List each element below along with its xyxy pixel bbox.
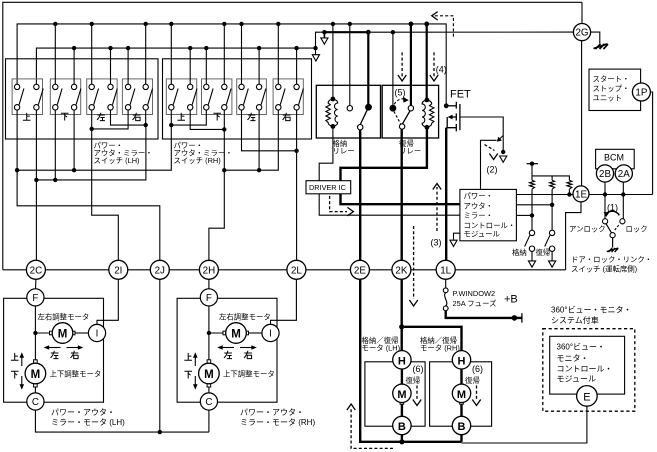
node: +B terminal [512,315,518,321]
svg-text:F: F [206,293,212,304]
svg-text:C: C [32,397,39,408]
switch unit box RIGHT (RH) [273,79,303,115]
svg-text:スイッチ (RH): スイッチ (RH) [174,156,221,165]
label UP (LH) [23,113,31,120]
svg-text:2H: 2H [203,265,216,276]
svg-text:モータ (RH): モータ (RH) [420,344,460,353]
svg-text:B: B [398,421,406,433]
node: dot on bottom rail [399,439,404,444]
terminal I (LH) [88,324,105,341]
node: bus junction dots LH [53,22,148,51]
svg-text:2J: 2J [155,265,165,276]
connector 2K [392,260,411,279]
motor M retract (RH) [452,384,470,404]
svg-text:BCM: BCM [604,153,624,163]
retract motor LH box [365,362,425,426]
svg-text:復帰: 復帰 [536,248,551,257]
svg-text:パワー・アウタ・: パワー・アウタ・ [240,408,304,417]
node: bus24 dot coil [331,22,335,26]
wire: M1 to I [73,332,89,334]
svg-text:ユニット: ユニット [593,94,623,103]
svg-text:ドア・ロック・リンク・: ドア・ロック・リンク・ [571,255,652,264]
node: y32 dot [391,30,395,34]
node: dot col8 y125 [144,123,148,127]
node: FET drain dot [444,103,449,108]
wire: branch to RH retract motor (thick) [402,327,462,351]
wire: dashed arrow (3) up [436,187,438,231]
label LEFT (RH) [248,113,256,121]
connector 1P [632,83,650,101]
terminal H (RH) [452,351,470,369]
terminal I (RH) [262,324,279,341]
connector 2J [150,260,169,279]
svg-text:25A フューズ: 25A フューズ [453,299,498,308]
connector 2E [350,260,369,279]
wire: M1 to I [246,332,262,334]
wire: retract relay coil feed from bus24 [332,24,334,99]
motor M UD adjust (RH) [199,360,220,387]
transistor FET [446,102,460,132]
connector 2C [26,260,45,279]
wire: retract relay blade [360,107,368,124]
wire: 2E thick drop to bottom rail [360,279,461,442]
wire: y32 thick segment to relay common [324,31,368,33]
svg-text:(5): (5) [395,88,406,98]
wire: 1E to 2G vertical [581,32,583,194]
switch contacts LH (8 columns) [14,84,152,110]
wire: 2K thick drop [401,279,403,350]
wire: risers RH cols to buses [171,24,296,84]
svg-text:1E: 1E [575,189,587,200]
connector 2L [287,260,306,279]
wire: RH col6 drop [258,110,260,170]
svg-text:復帰: 復帰 [465,376,480,385]
wire: DRIVER IC out thick to module [341,194,460,204]
wire: RH col4 drop to 2H elbow [209,110,224,260]
svg-text:H: H [398,355,406,367]
terminal H (LH) [393,351,411,369]
wire: return coil to DRIVER IC (thick) [341,127,427,180]
label UP (RH) [177,113,185,120]
wire: dashed arrow (2) [485,145,495,151]
svg-text:I: I [269,329,272,340]
mirror motor LH box [4,298,104,402]
motor M UD adjust (LH) [25,360,46,387]
svg-text:E: E [583,391,590,403]
svg-text:モジュール: モジュール [464,230,501,239]
node: dots line D [222,168,261,172]
mirror switch LH box [6,59,159,139]
relay coil (retract) [326,97,338,129]
wire: module line 2 to pullup mid [516,204,552,206]
svg-text:システム付車: システム付車 [551,315,599,325]
wire: pullup2 down to return switch [551,189,553,230]
terminal C (LH) [27,393,44,410]
svg-text:ミラー・モータ (RH): ミラー・モータ (RH) [240,418,315,427]
wire: 2B drop [604,181,606,219]
svg-text:1P: 1P [635,88,647,99]
wire: row to 1E riser [566,194,581,270]
wire: below blade pivot to dot and triangle [502,136,504,153]
wire: pullup1 down to retract switch [531,189,533,230]
svg-text:(6): (6) [413,364,424,374]
svg-text:コントロール・: コントロール・ [557,365,613,374]
terminal F (RH) [200,289,217,306]
wire: line B (y=179.9) col2-col3-col8 [36,128,145,180]
node: dot LH motor [33,331,37,335]
wire: 1P to BCM line [645,92,653,195]
node: return relay right contact [408,106,413,111]
resistor pullup 3 [567,180,572,189]
svg-text:ストップ・: ストップ・ [593,84,630,93]
svg-text:リレー: リレー [333,147,355,156]
wire: LH col2 drop to 2C [35,110,37,260]
wire: connector row line [3,269,566,271]
svg-text:360°ビュー・モニタ・: 360°ビュー・モニタ・ [551,306,632,315]
svg-text:(1): (1) [607,203,618,213]
svg-text:2E: 2E [354,265,366,276]
switch unit box UP (LH) [12,79,42,115]
node: dot col5 y129 [90,127,94,131]
wire: ground loop (top edge, left edge) [3,2,582,270]
wire: line D (y=170.2) RH col4-col6-col7 [224,110,278,170]
wire: LH col4 drop [73,110,75,170]
mirror motor RH box [177,298,277,402]
wire: C LH down and right [35,410,209,432]
360 view control module box [550,336,625,394]
svg-text:M: M [58,329,68,341]
wire: 1E to BCM/1P line [589,194,653,196]
connector 1L [436,260,455,279]
svg-text:アンロック: アンロック [569,225,606,234]
svg-text:I: I [96,329,99,340]
svg-text:ミラー・モータ (LH): ミラー・モータ (LH) [51,418,125,427]
svg-text:360°ビュー・: 360°ビュー・ [557,343,606,352]
switch unit box DOWN (LH) [50,79,80,115]
svg-text:2C: 2C [30,265,43,276]
svg-text:復帰: 復帰 [406,376,421,385]
node: bus junction dots RH [169,22,299,51]
switch unit box UP (RH) [166,79,196,115]
switch unit box RIGHT (LH) [122,79,152,115]
wire: FET source to 1L (thick) [445,128,447,261]
label: UD arrows (RH) [194,355,196,387]
node: return relay left contact (filled) [390,105,397,112]
node: dot RH motor [207,331,211,335]
DRIVER IC box [306,181,351,194]
label LEFT (LH) [97,113,105,121]
node: dot module line2 [550,203,554,207]
wire: I elbow up to 2L [271,279,297,325]
wire: dot to M1 [209,332,226,334]
node: retract relay common contact (filled) [365,104,372,111]
svg-text:+B: +B [504,294,518,306]
svg-text:H: H [458,355,466,367]
motor M retract (LH) [393,384,411,404]
relay coil (return) [422,98,434,130]
wire: 2A drop [622,181,624,219]
wire: line A (y=170.2) to RH col1 [17,125,171,170]
wire: 2G stub to top edge [581,2,583,32]
mirror control module box [460,189,517,240]
node: dot RH col1 y125 [169,123,173,127]
wire: return relay action arc (5) [394,99,406,104]
wire: dashed arrow down (return action) [413,226,415,299]
svg-text:左右調整モータ: 左右調整モータ [38,313,90,322]
node: return relay moving contact [399,124,404,129]
resistor pullup 1 [530,180,535,189]
switch unit box LEFT (LH) [87,79,117,115]
terminal E [577,386,598,407]
label: UD arrows (LH) [21,355,23,387]
wire: LH col8 drop (through y125 dot) [145,110,147,128]
node: dot module line3 [530,213,534,217]
wire: I elbow up to 2I [97,279,118,325]
wire: retract relay common feed (thick from y32) [367,32,369,105]
wire: RH col8 drop to 2L [296,110,298,260]
wire: C RH down [208,410,210,432]
wire: dashed arrow from DRIVER IC [330,196,347,212]
svg-text:モータ (LH): モータ (LH) [362,344,401,353]
terminal C (RH) [200,393,217,410]
svg-text:スイッチ (LH): スイッチ (LH) [94,156,140,165]
svg-text:左右調整モータ: 左右調整モータ [219,313,271,322]
svg-text:M: M [31,369,41,381]
switch: return position switch [545,230,555,261]
connector 2G [573,23,590,40]
switch contacts RH (8 columns) [169,84,304,110]
svg-text:2I: 2I [114,265,122,276]
svg-text:2G: 2G [575,28,588,39]
switch: retract position switch [525,230,535,261]
svg-text:C: C [205,397,212,408]
wire: contact line to module [481,140,497,189]
svg-text:2A: 2A [618,169,630,180]
node: y32 dot [366,30,371,35]
wire: return relay moving to 2K (thick) [401,129,403,260]
svg-text:パワー・: パワー・ [464,192,494,201]
BCM box [596,149,635,169]
svg-text:2B: 2B [599,169,611,180]
node: bus24 dot [409,22,414,27]
motor M LR adjust (RH) [223,323,249,344]
wire: return relay NO contact feed from y32 [392,32,394,105]
node: dots 2B/2A on line [603,192,626,196]
switch: gate contact blade with arrow [500,136,504,140]
svg-text:2K: 2K [395,265,407,276]
node: dot RH col4 y129 [222,127,226,131]
wire: 2J drop [159,279,161,432]
node: dot [501,150,505,154]
wire: retract coil to DRIVER IC [319,126,333,180]
motor M LR adjust (LH) [50,323,76,344]
wire: dashed arrow top right (retract signal) [435,16,454,37]
start stop unit box [589,69,641,110]
wire: LH col3 drop [54,110,56,180]
svg-text:DRIVER IC: DRIVER IC [309,183,346,192]
wire: F down through dot to M2 and C [34,306,36,394]
wire: return relay right contact feed (thick from bus24) [410,24,412,106]
svg-text:(3): (3) [431,237,442,247]
svg-text:ロック: ロック [626,225,648,234]
svg-text:B: B [458,421,466,433]
terminal B (LH) [393,416,411,434]
svg-text:ミラー・: ミラー・ [464,211,494,220]
ground: 2G chassis ground [591,32,600,43]
label: LR arrows (LH) [46,347,81,349]
connector 1E [573,186,589,202]
wire: switch action arc (1) [607,211,620,215]
wire: LH col5 drop then elbow to 2I [92,110,119,260]
wire: module to 1E line [516,194,573,196]
svg-text:格納: 格納 [512,248,527,257]
node: dots on line A [15,168,76,172]
svg-text:モジュール: モジュール [557,375,596,384]
wire: module line 3 to pullup left [516,214,532,216]
wire: LH col6-col8 link [111,110,146,125]
wire: retract relay moving to 2E (thick) [359,130,361,260]
wire: 2C to F [35,279,37,289]
label: LR arrows (RH) [220,347,255,349]
node: retract relay NC contact [347,106,352,111]
wire: H-M-B links (thick) [401,369,403,442]
wire: LH col1 continues to line C then 2J [17,170,160,260]
svg-text:スタート・: スタート・ [593,75,630,84]
wire: RH col5 link to col8 (y=150.8) [242,110,297,151]
terminal B (RH) [452,416,470,434]
wire: return relay blade [402,111,410,125]
wire: LH col7-col5 link [92,110,128,129]
wire: fuse to +B (thick) [446,311,522,318]
wire: FET gate line to door-lock contact [460,117,503,136]
retract motor RH box [430,362,492,426]
connector 2H [199,260,218,279]
wire: pullup feeds [532,164,569,181]
ground: door lock switch [612,238,614,248]
svg-text:モニタ・: モニタ・ [557,354,589,363]
wire: LH col1 drop to line A [16,110,18,170]
wire: retract relay NC contact feed from bus24 [349,24,351,106]
node: bus24 dot [424,22,429,27]
resistor pullup 2 [550,180,555,189]
terminal F (LH) [27,289,44,306]
node: bus48 end dot + off-page triangle [312,46,319,61]
wire: H-M-B links RH (thick) [460,369,462,442]
wire: risers LH cols to buses [55,24,145,84]
wire: RH col1 drop, link to col3 [171,110,206,125]
wire: dashed arrow (relay action) left [401,52,403,77]
wire: DRIVER IC out thin to module [319,194,460,215]
node: bus24 dot contact [348,22,352,26]
wire: bus line lower (y=48) [36,48,315,84]
svg-text:2L: 2L [291,265,302,276]
return relay box [382,85,438,138]
svg-text:上下調整モータ: 上下調整モータ [223,370,275,379]
wire: return relay coil feed (thick from bus24) [426,24,428,100]
label RIGHT (RH) [283,113,291,121]
switch: door lock link switch [603,219,608,224]
svg-text:F: F [32,293,38,304]
svg-text:M: M [457,389,466,401]
node: dot 2J drop [158,430,162,434]
wire: F down through dot to M2 and C [208,306,210,394]
svg-text:パワー・アウタ・: パワー・アウタ・ [51,408,115,417]
label DOWN (LH) [61,113,69,120]
wire: riser bus48 to y32 line [316,32,325,48]
mirror switch RH box [163,59,312,139]
label DOWN (RH) [213,113,221,120]
wire: RH col2 link to col4 [190,110,224,129]
svg-text:1L: 1L [440,265,451,276]
svg-text:アウタ・: アウタ・ [464,201,494,210]
svg-text:上下調整モータ: 上下調整モータ [50,370,102,379]
svg-text:M: M [231,329,241,341]
svg-text:(2): (2) [487,165,498,175]
svg-text:FET: FET [450,89,471,101]
svg-text:(6): (6) [472,364,483,374]
connector 2B [596,165,613,182]
wire: dot to M1 [35,332,52,334]
svg-text:M: M [397,389,406,401]
wire: dashed arrow up bottom left [351,408,393,448]
connector 2A [615,165,632,182]
node: retract relay moving contact [358,125,363,130]
node: dot branch to RH retract motor [399,324,404,329]
node: dot on 1E line [567,192,571,196]
fuse P.WINDOW2 [445,279,447,288]
switch unit box DOWN (RH) [202,79,232,115]
retract relay box [316,85,380,138]
wire: pullup3 down to 1E line [568,189,570,194]
wire: y32 thin segment to 2G [368,31,574,33]
wire: dashed arrow (4) [433,52,435,77]
wire: B RH to 360 view module E [462,406,587,443]
node: dots line B [34,178,57,182]
svg-text:スイッチ (運転席側): スイッチ (運転席側) [571,265,637,274]
wire: bus line B+ upper (y=24) [17,24,446,106]
svg-text:M: M [204,369,214,381]
wire: module ground stub + triangle [454,233,460,239]
360 view outer dashed box [543,329,635,412]
power supply T-bar [527,163,539,165]
switch unit box LEFT (RH) [237,79,267,115]
svg-text:(4): (4) [436,65,447,75]
svg-text:P.WINDOW2: P.WINDOW2 [453,289,496,298]
wire: return relay alternate blade (dashed) [394,112,401,124]
connector 2I [109,260,128,279]
node: dot col8 y150.8 [294,149,298,153]
wire: 2H to F [208,279,210,289]
label RIGHT (LH) [133,113,141,121]
node: y32 dot + off-page triangle [321,30,328,44]
